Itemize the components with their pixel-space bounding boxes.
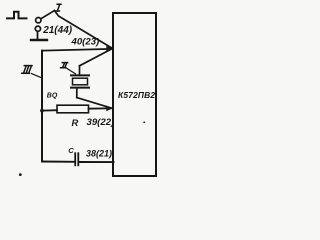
junction dot rail/resistor: [40, 109, 44, 113]
terminal stem: [37, 31, 39, 39]
switch contact bottom: [35, 26, 40, 31]
wire resistor to pin 39: [89, 107, 112, 109]
crystal BQ bottom lead: [76, 89, 78, 98]
svg-text:R: R: [72, 117, 79, 128]
capacitor C right plate: [77, 153, 79, 165]
terminal bar: [31, 39, 47, 41]
svg-text:21(44): 21(44): [42, 25, 73, 36]
chip K572PV2 body: [113, 13, 156, 176]
label II (roman numeral): [61, 63, 68, 68]
left rail (bus III): [41, 51, 43, 162]
resistor R body: [57, 105, 89, 113]
wire rail to pin 40: [43, 49, 111, 51]
svg-text:К572ПВ2: К572ПВ2: [118, 90, 155, 100]
wire crystal bottom to pin 39: [77, 98, 111, 108]
crystal BQ body: [73, 78, 88, 85]
crystal BQ top plate: [71, 74, 89, 76]
label III (roman numeral): [22, 66, 32, 74]
leader III: [32, 74, 43, 79]
capacitor C left plate: [74, 153, 76, 165]
wire switch to pin 40: [55, 11, 112, 48]
leader II: [67, 69, 76, 74]
svg-text:40(23): 40(23): [71, 37, 100, 48]
crystal BQ bottom plate: [71, 87, 89, 89]
pin 39 arrowhead: [106, 106, 112, 112]
pulse waveform symbol: [7, 12, 27, 19]
svg-text:C: C: [68, 146, 74, 155]
wire rail to resistor: [42, 109, 57, 111]
svg-text:38(21): 38(21): [86, 149, 112, 159]
switch lever: [41, 11, 54, 19]
pin 40 arrowhead: [106, 46, 112, 52]
speck bottom-left: [19, 173, 22, 176]
crystal BQ top lead: [79, 66, 81, 76]
wire capacitor to pin 38: [79, 161, 113, 163]
label I (roman numeral): [56, 4, 61, 11]
svg-text:BQ: BQ: [47, 93, 58, 100]
speck in chip: [143, 121, 145, 123]
svg-text:39(22): 39(22): [87, 117, 115, 128]
switch contact top: [36, 18, 41, 23]
wire rail to capacitor: [42, 161, 74, 163]
wire crystal top to pin 40: [80, 49, 112, 66]
